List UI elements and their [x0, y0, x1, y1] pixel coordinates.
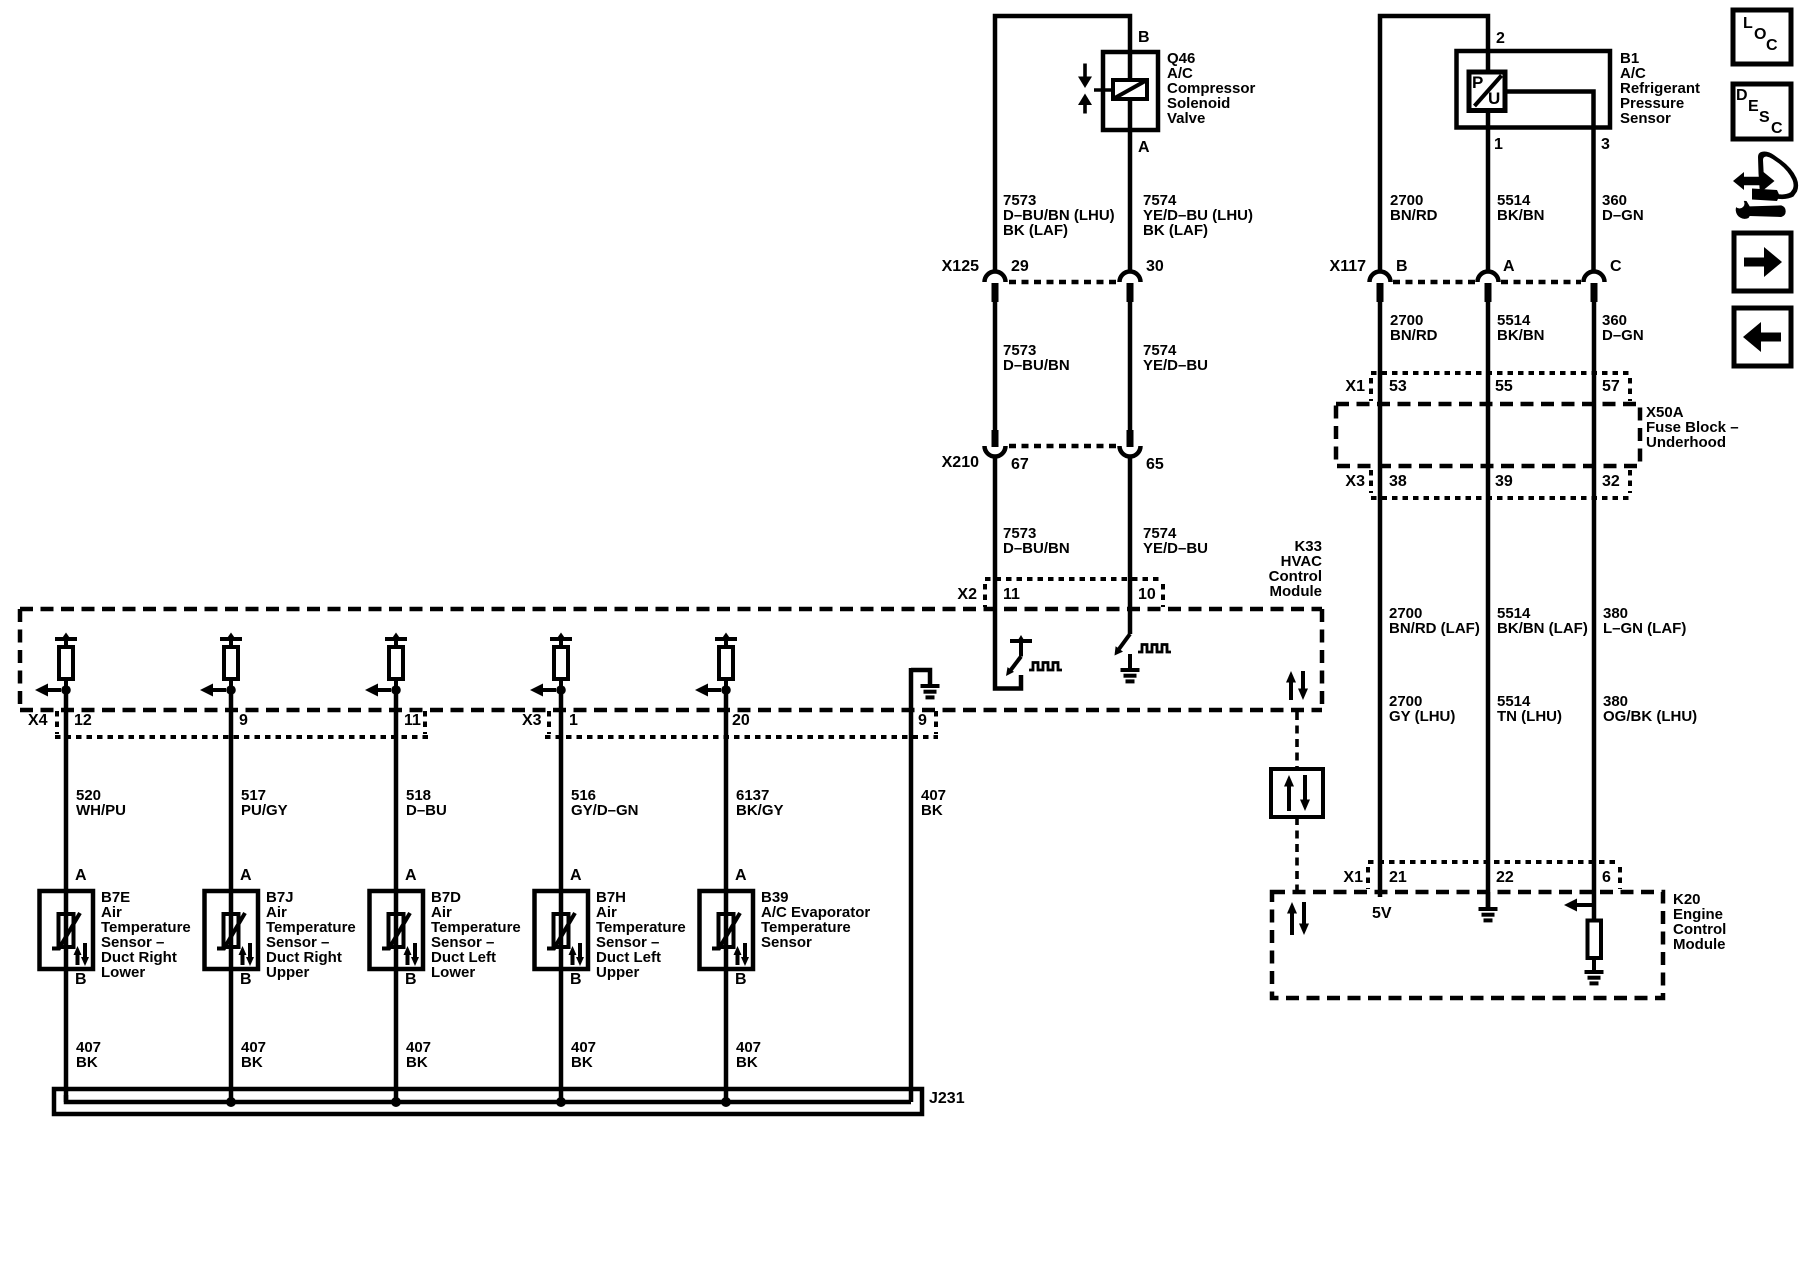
svg-text:A: A — [735, 867, 747, 884]
connector X117 pin C — [1584, 258, 1623, 302]
wire label 520 WH/PU — [76, 787, 126, 819]
wire label 407 BK under B7D — [406, 1039, 431, 1071]
svg-text:Underhood: Underhood — [1646, 434, 1726, 451]
connector X3 of K33 — [522, 711, 938, 737]
svg-text:X4: X4 — [28, 712, 48, 729]
wire label 407 BK under B7H — [571, 1039, 596, 1071]
switch K33 low side (pin 11) — [995, 610, 1032, 689]
wire 5514 X117-A down — [1486, 302, 1491, 907]
junction dot J231 at 561 — [556, 1097, 566, 1107]
wire label 5514 TN (LHU) — [1497, 693, 1562, 725]
junction dot J231 at 396 — [391, 1097, 401, 1107]
svg-text:12: 12 — [74, 712, 92, 729]
signal arrow B7H input — [530, 684, 566, 697]
svg-text:5V: 5V — [1372, 905, 1392, 922]
svg-text:WH/PU: WH/PU — [76, 802, 126, 819]
module box K33 — [20, 609, 1322, 710]
svg-text:A: A — [75, 867, 87, 884]
svg-text:C: C — [1771, 120, 1783, 137]
label K33 HVAC Control Module — [1269, 538, 1322, 600]
resistor pull-up B7D input — [385, 633, 407, 691]
connector X1 of K20 — [1343, 862, 1620, 889]
svg-text:B: B — [1138, 29, 1150, 46]
wire label 407 BK under B7J — [241, 1039, 266, 1071]
connector X117 pin B — [1370, 258, 1408, 302]
wire K33 to sensor B7J pin A — [229, 690, 234, 891]
svg-text:BK: BK — [76, 1054, 98, 1071]
resistor pull-up B7E input — [55, 633, 77, 691]
svg-text:S: S — [1759, 109, 1770, 126]
svg-text:39: 39 — [1495, 473, 1513, 490]
svg-text:2: 2 — [1496, 30, 1505, 47]
signal arrow K20 pin 6 — [1564, 899, 1593, 912]
wire label 7573 D-BU/BN lower — [1003, 525, 1070, 557]
svg-text:21: 21 — [1389, 869, 1407, 886]
svg-text:3: 3 — [1601, 136, 1610, 153]
svg-text:Upper: Upper — [266, 964, 310, 981]
connector X125 pin 30 — [1120, 258, 1164, 302]
dashed data link to K20 — [1295, 817, 1299, 892]
wire 7573 X125-29 to X210-67 — [993, 302, 998, 430]
splice pack J231 — [54, 1089, 922, 1114]
svg-text:10: 10 — [1138, 586, 1156, 603]
svg-text:GY (LHU): GY (LHU) — [1389, 708, 1455, 725]
svg-text:X125: X125 — [942, 258, 979, 275]
svg-text:1: 1 — [1494, 136, 1503, 153]
wire label 7574 YE/D-BU — [1143, 342, 1208, 374]
wire label 407 BK under B39 — [736, 1039, 761, 1071]
signal arrow B39 input — [695, 684, 731, 697]
svg-text:D–BU/BN: D–BU/BN — [1003, 357, 1070, 374]
sensor B7J thermistor — [205, 891, 259, 969]
svg-text:9: 9 — [239, 712, 248, 729]
dashed data link from K33 — [1295, 712, 1299, 769]
svg-text:11: 11 — [404, 712, 421, 729]
connector X1 of X50A — [1345, 373, 1630, 401]
label Q46 A/C Compressor Solenoid Valve — [1167, 50, 1256, 127]
wire label 2700 GY (LHU) — [1389, 693, 1455, 725]
svg-text:Module: Module — [1673, 936, 1726, 953]
wire label 5514 BK/BN mid — [1497, 312, 1545, 344]
svg-text:57: 57 — [1602, 378, 1620, 395]
svg-text:X210: X210 — [942, 454, 979, 471]
svg-text:Lower: Lower — [431, 964, 475, 981]
ground symbol K20 pin 22 — [1479, 892, 1498, 920]
svg-text:L–GN (LAF): L–GN (LAF) — [1603, 620, 1686, 637]
svg-text:BN/RD: BN/RD — [1390, 207, 1438, 224]
icon back arrow box — [1734, 308, 1791, 366]
icon diagnostic hand wrench — [1733, 152, 1798, 219]
svg-text:30: 30 — [1146, 258, 1164, 275]
ground symbol inside K33 — [911, 670, 940, 697]
wire label 407 BK right — [921, 787, 946, 819]
signal arrow B7J input — [200, 684, 236, 697]
svg-text:Sensor: Sensor — [1620, 110, 1671, 127]
svg-text:A: A — [570, 867, 582, 884]
svg-text:D: D — [1736, 87, 1748, 104]
svg-text:X3: X3 — [1345, 473, 1365, 490]
svg-text:11: 11 — [1003, 586, 1020, 603]
svg-text:53: 53 — [1389, 378, 1407, 395]
wire 7574 X210-65 to K33 X2-10 — [1128, 456, 1133, 610]
wire label 380 OG/BK (LHU) — [1603, 693, 1697, 725]
wire label 7573 D-BU/BN (LHU) BK (LAF) — [1003, 192, 1115, 239]
svg-text:X3: X3 — [522, 712, 542, 729]
wire sensor B39 pin B to J231 — [724, 969, 729, 1102]
sensor B7H thermistor — [535, 891, 589, 969]
wire label 7574 YE/D-BU lower — [1143, 525, 1208, 557]
svg-text:C: C — [1766, 37, 1778, 54]
wire 7574 X125-30 to X210-65 — [1128, 302, 1133, 430]
wire sensor B7E pin B to J231 — [64, 969, 69, 1102]
switch K33 high side (pin 10) — [1115, 610, 1140, 681]
wire label 380 L-GN (LAF) — [1603, 605, 1686, 637]
connector X210 dashed line — [1009, 444, 1117, 449]
wire label 2700 BN/RD (LAF) — [1389, 605, 1480, 637]
svg-text:B: B — [240, 971, 252, 988]
svg-text:55: 55 — [1495, 378, 1513, 395]
wire top bar from node 29 to Q46 pin B — [995, 16, 1130, 272]
sensor B39 thermistor — [700, 891, 754, 969]
serial data arrows inside K33 — [1286, 671, 1308, 700]
junction dot J231 at 726 — [721, 1097, 731, 1107]
icon DESC box — [1733, 84, 1791, 139]
serial data arrows inside K20 — [1287, 902, 1309, 935]
wire label 360 D-GN mid — [1602, 312, 1644, 344]
wire label 5514 BK/BN (LAF) — [1497, 605, 1588, 637]
wire 2700 X117-B down — [1378, 302, 1383, 897]
svg-text:BK: BK — [571, 1054, 593, 1071]
svg-text:Module: Module — [1270, 583, 1323, 600]
wire label 7574 YE/D-BU (LHU) BK (LAF) — [1143, 192, 1253, 239]
resistor pull-up B7J input — [220, 633, 242, 691]
wire 7573 X210-67 to K33 X2-11 — [993, 456, 998, 610]
wire 5514 B1-1 to X117-A — [1486, 128, 1491, 273]
label K20 Engine Control Module — [1673, 891, 1726, 953]
wire label 7573 D-BU/BN — [1003, 342, 1070, 374]
solenoid valve Q46 body — [1103, 52, 1158, 130]
wire K33 to sensor B7H pin A — [559, 690, 564, 891]
label B7J description — [266, 889, 356, 981]
svg-text:O: O — [1754, 26, 1766, 43]
connector X4 of K33 — [28, 711, 428, 737]
svg-text:BN/RD: BN/RD — [1390, 327, 1438, 344]
label B7D description — [431, 889, 521, 981]
valve symbol arrows Q46 — [1078, 64, 1113, 114]
label X50A Fuse Block Underhood — [1646, 404, 1739, 451]
svg-text:BK/BN (LAF): BK/BN (LAF) — [1497, 620, 1588, 637]
wire label 2700 BN/RD top — [1390, 192, 1438, 224]
wire sensor B7H pin B to J231 — [559, 969, 564, 1102]
svg-text:YE/D–BU: YE/D–BU — [1143, 357, 1208, 374]
svg-text:A: A — [1503, 258, 1515, 275]
svg-text:D–BU: D–BU — [406, 802, 447, 819]
svg-text:U: U — [1488, 89, 1500, 108]
label B7E description — [101, 889, 191, 981]
svg-text:BK: BK — [241, 1054, 263, 1071]
svg-text:D–BU/BN: D–BU/BN — [1003, 540, 1070, 557]
data link connector symbol — [1271, 769, 1323, 817]
resistor pull-up B7H input — [550, 633, 572, 691]
connector X125 dashed line — [1009, 280, 1117, 285]
svg-text:1: 1 — [569, 712, 578, 729]
svg-text:67: 67 — [1011, 456, 1029, 473]
svg-text:X1: X1 — [1343, 869, 1363, 886]
svg-text:L: L — [1743, 15, 1753, 32]
wire 407 BK from K33 X3-9 to J231 — [909, 668, 914, 1102]
module box K20 — [1272, 892, 1663, 998]
connector X117 dashed lines — [1393, 280, 1581, 285]
wire K33 to sensor B7E pin A — [64, 690, 69, 891]
svg-text:32: 32 — [1602, 473, 1620, 490]
sensor B7E thermistor — [40, 891, 94, 969]
icon LOC box — [1733, 10, 1791, 64]
svg-text:38: 38 — [1389, 473, 1407, 490]
wire label 517 PU/GY — [241, 787, 288, 819]
svg-text:BK: BK — [736, 1054, 758, 1071]
svg-text:65: 65 — [1146, 456, 1164, 473]
connector X2 of K33 — [957, 579, 1163, 607]
svg-text:BK/GY: BK/GY — [736, 802, 784, 819]
svg-text:BN/RD (LAF): BN/RD (LAF) — [1389, 620, 1480, 637]
wire label 407 BK under B7E — [76, 1039, 101, 1071]
svg-text:Sensor: Sensor — [761, 934, 812, 951]
svg-text:E: E — [1748, 98, 1759, 115]
fuse block X50A box — [1336, 404, 1640, 466]
svg-text:29: 29 — [1011, 258, 1029, 275]
svg-text:BK (LAF): BK (LAF) — [1143, 222, 1208, 239]
wire label 6137 BK/GY — [736, 787, 784, 819]
resistor K20 pull-down — [1585, 921, 1604, 984]
wire label 360 D-GN top — [1602, 192, 1644, 224]
svg-text:Valve: Valve — [1167, 110, 1205, 127]
svg-text:C: C — [1610, 258, 1622, 275]
icon forward arrow box — [1734, 233, 1791, 291]
resistor pull-up B39 input — [715, 633, 737, 691]
wire K33 to sensor B7D pin A — [394, 690, 399, 891]
svg-text:J231: J231 — [929, 1090, 965, 1107]
svg-text:B: B — [405, 971, 417, 988]
svg-text:P: P — [1472, 73, 1483, 92]
svg-text:OG/BK (LHU): OG/BK (LHU) — [1603, 708, 1697, 725]
wire 360 B1-3 to X117-C — [1591, 128, 1596, 273]
svg-text:20: 20 — [732, 712, 750, 729]
svg-text:B: B — [570, 971, 582, 988]
svg-text:9: 9 — [918, 712, 927, 729]
wire label 518 D–BU — [406, 787, 447, 819]
svg-text:YE/D–BU: YE/D–BU — [1143, 540, 1208, 557]
connector X210 pin 65 — [1120, 430, 1164, 473]
svg-text:TN (LHU): TN (LHU) — [1497, 708, 1562, 725]
svg-text:B: B — [735, 971, 747, 988]
wire label 2700 BN/RD mid — [1390, 312, 1438, 344]
svg-text:A: A — [240, 867, 252, 884]
svg-text:A: A — [405, 867, 417, 884]
svg-text:BK: BK — [406, 1054, 428, 1071]
svg-text:PU/GY: PU/GY — [241, 802, 288, 819]
svg-text:6: 6 — [1602, 869, 1611, 886]
PWM symbol right switch — [1138, 645, 1171, 653]
wire sensor B7J pin B to J231 — [229, 969, 234, 1102]
svg-text:X1: X1 — [1345, 378, 1365, 395]
label B1 A/C Refrigerant Pressure Sensor — [1620, 50, 1700, 127]
svg-text:D–GN: D–GN — [1602, 207, 1644, 224]
svg-text:BK (LAF): BK (LAF) — [1003, 222, 1068, 239]
wire sensor B7D pin B to J231 — [394, 969, 399, 1102]
svg-text:BK/BN: BK/BN — [1497, 207, 1545, 224]
svg-text:GY/D–GN: GY/D–GN — [571, 802, 639, 819]
connector X117 pin A — [1478, 258, 1516, 302]
junction dot J231 at 231 — [226, 1097, 236, 1107]
signal arrow B7E input — [35, 684, 71, 697]
sensor B7D thermistor — [370, 891, 424, 969]
svg-text:B: B — [1396, 258, 1408, 275]
svg-text:Lower: Lower — [101, 964, 145, 981]
svg-text:BK: BK — [921, 802, 943, 819]
wire label 516 GY/D–GN — [571, 787, 639, 819]
svg-text:A: A — [1138, 139, 1150, 156]
connector X125 pin 29 — [985, 258, 1029, 302]
svg-text:X117: X117 — [1330, 258, 1367, 275]
svg-text:22: 22 — [1496, 869, 1514, 886]
wire 360 X117-C down — [1592, 302, 1597, 920]
signal arrow B7D input — [365, 684, 401, 697]
label B39 description — [761, 889, 870, 951]
wire K33 to sensor B39 pin A — [724, 690, 729, 891]
connector X3 of X50A — [1345, 470, 1630, 498]
pressure sensor B1 body — [1457, 51, 1611, 128]
wire label 5514 BK/BN top — [1497, 192, 1545, 224]
svg-text:D–GN: D–GN — [1602, 327, 1644, 344]
svg-text:X2: X2 — [957, 586, 977, 603]
connector X210 pin 67 — [985, 430, 1029, 473]
PWM symbol left switch — [1029, 663, 1062, 671]
svg-text:B: B — [75, 971, 87, 988]
svg-text:Upper: Upper — [596, 964, 640, 981]
label B7H description — [596, 889, 686, 981]
svg-text:BK/BN: BK/BN — [1497, 327, 1545, 344]
wire 7573 Q46 pin A to X125 pin 29 — [1128, 130, 1133, 272]
wire top bar X117-B to B1 pin 2 — [1380, 16, 1488, 272]
